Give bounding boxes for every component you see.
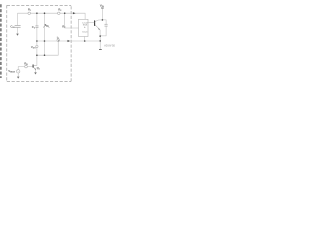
svg-text:RB: RB — [24, 61, 28, 65]
svg-text:CIN: CIN — [10, 25, 15, 29]
svg-text:R2: R2 — [58, 7, 62, 11]
svg-text:C2: C2 — [32, 25, 36, 29]
svg-text:Q1: Q1 — [37, 66, 41, 70]
svg-text:VIN: VIN — [100, 3, 105, 8]
svg-text:RL: RL — [46, 24, 50, 28]
svg-text:R1: R1 — [28, 8, 32, 12]
svg-text:AD 8V 50: AD 8V 50 — [104, 45, 115, 48]
svg-text:Drive: Drive — [82, 31, 88, 34]
svg-text:&: & — [84, 27, 86, 29]
svg-text:IO: IO — [57, 35, 60, 39]
svg-text:RF: RF — [62, 24, 66, 28]
svg-text:VBIAS: VBIAS — [8, 69, 15, 73]
svg-text:VDS: VDS — [31, 45, 36, 49]
